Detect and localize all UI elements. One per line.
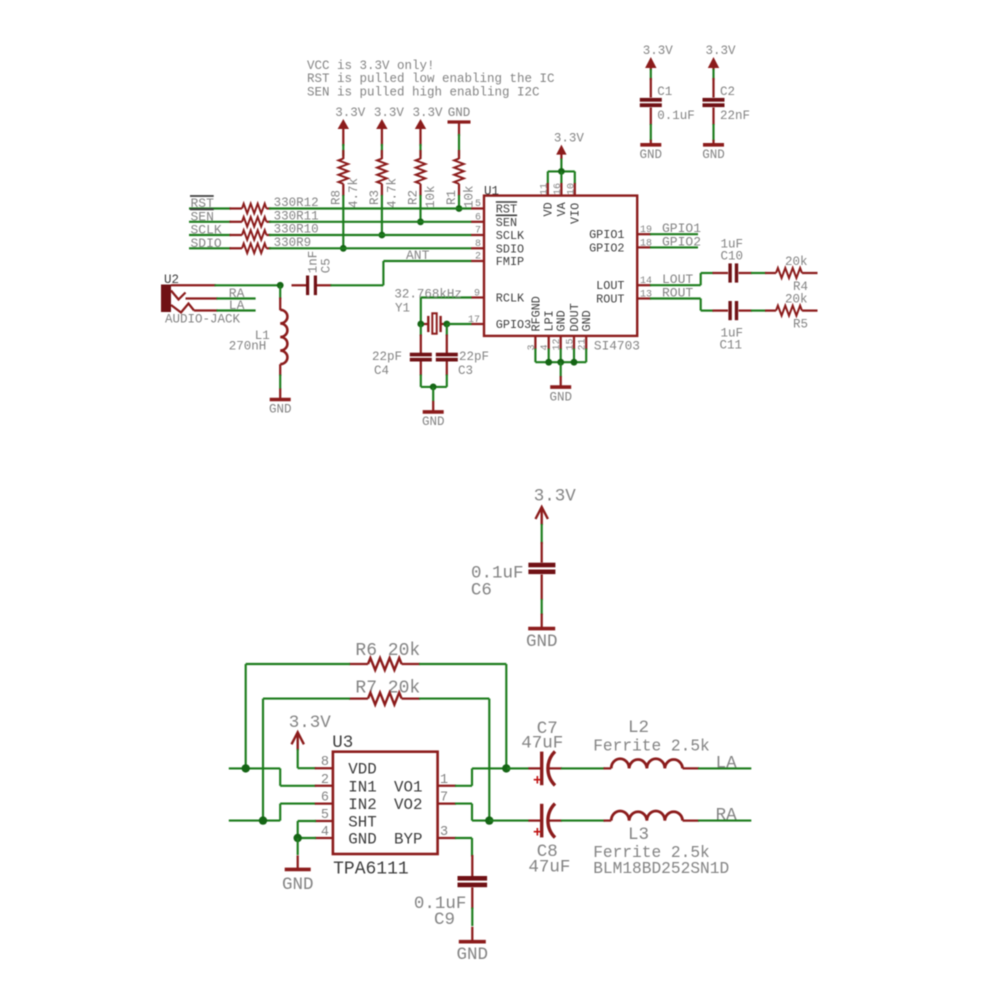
pin 2 stub: [315, 773, 333, 788]
crystal Y1 32.768kHz: [394, 288, 462, 334]
node RA stub: [217, 286, 256, 301]
svg-text:C4: C4: [374, 364, 389, 378]
svg-text:LOUT: LOUT: [596, 279, 624, 293]
svg-text:3.3V: 3.3V: [289, 713, 332, 733]
wire C11 to R5: [751, 310, 766, 312]
svg-text:4: 4: [321, 825, 329, 840]
supply 3.3V above U1: [554, 132, 585, 160]
wire SCLK to U1 pin 7: [269, 234, 472, 236]
ground GND below U3: [282, 855, 314, 895]
wire 3.3V to bus: [560, 159, 562, 172]
svg-text:C2: C2: [720, 85, 735, 99]
wire R7 left: [263, 698, 350, 700]
wire pin 4 down: [548, 349, 550, 363]
pin 9 stub: [471, 289, 484, 300]
pin 10 stub: [566, 183, 577, 196]
svg-text:SHT: SHT: [348, 814, 376, 832]
pin 3 stub: [438, 825, 456, 840]
wire C3 to gnd bus: [446, 375, 448, 387]
node SDIO label: [191, 236, 222, 251]
svg-text:GND: GND: [526, 632, 558, 652]
svg-text:6: 6: [475, 212, 481, 223]
svg-text:VA: VA: [555, 201, 569, 216]
resistor R10 330: [230, 223, 319, 240]
pin 4 stub: [540, 336, 551, 351]
svg-text:+: +: [533, 773, 542, 789]
pin 17 stub: [468, 315, 485, 326]
wire RST left: [189, 207, 231, 209]
wire ROUT input line: [229, 820, 280, 822]
svg-text:VIO: VIO: [569, 203, 583, 224]
node LA stub: [217, 298, 256, 313]
supply 3.3V above R3: [374, 106, 405, 146]
wire 3.3V to R3: [381, 144, 383, 156]
supply 3.3V above C6: [534, 487, 577, 526]
node GPIO1 wire: [650, 221, 701, 236]
C8 labels: [528, 842, 570, 878]
node RA output: [698, 806, 751, 826]
svg-text:C5: C5: [320, 258, 334, 273]
svg-text:GPIO2: GPIO2: [589, 241, 624, 255]
svg-text:GND: GND: [269, 403, 292, 417]
wire R7 right: [419, 698, 489, 700]
wire R6 left: [246, 663, 350, 665]
wire R2 to bus: [419, 195, 421, 222]
svg-text:GPIO2: GPIO2: [662, 234, 701, 249]
wire R6 right: [419, 663, 506, 665]
wire 3.3V to R2: [419, 144, 421, 156]
supply 3.3V above U3: [289, 713, 332, 750]
svg-text:47uF: 47uF: [521, 734, 563, 754]
pin 4 stub: [315, 825, 333, 840]
wire LOUT bend: [700, 273, 702, 285]
U1 pin names left: [496, 202, 531, 332]
U3 pin names left: [348, 761, 376, 849]
svg-text:0.1uF: 0.1uF: [657, 109, 695, 123]
wire L1 to GND: [279, 375, 281, 390]
capacitor C1 0.1uF: [640, 78, 695, 125]
svg-text:22pF: 22pF: [459, 350, 489, 364]
supply 3.3V above R8: [335, 106, 366, 146]
pin 7 stub: [471, 234, 484, 236]
wire bend to IN2: [279, 804, 281, 821]
resistor R2 10k: [407, 150, 439, 208]
svg-text:47uF: 47uF: [528, 858, 570, 878]
svg-text:C10: C10: [721, 250, 744, 264]
junction SHT/GND: [294, 834, 302, 842]
node LA output: [698, 754, 751, 774]
wire R6 left vertical: [245, 664, 247, 768]
wire 3.3V to C2: [712, 69, 714, 80]
wire to pin 16: [560, 171, 562, 184]
ground GND above R1: [448, 106, 471, 136]
svg-text:22nF: 22nF: [720, 109, 750, 123]
junction Y1 left: [417, 321, 424, 328]
svg-text:4.7k: 4.7k: [385, 178, 399, 208]
svg-text:FMIP: FMIP: [496, 255, 524, 269]
svg-text:GND: GND: [348, 831, 376, 849]
svg-text:3: 3: [440, 825, 448, 840]
wire pin 12 down: [560, 349, 562, 363]
wire C10 to R4: [751, 272, 766, 274]
wire down to GND: [432, 387, 434, 401]
note text block: [307, 59, 555, 99]
resistor R7 20k: [349, 679, 420, 705]
svg-text:C3: C3: [458, 364, 473, 378]
svg-text:ANT: ANT: [406, 248, 430, 263]
pin 3 stub: [527, 336, 538, 351]
wire bend to IN1: [279, 768, 281, 785]
wire GND pin 4: [298, 837, 316, 839]
supply 3.3V above C2: [705, 44, 736, 70]
junction R1: [456, 205, 463, 212]
wire R6 right vertical: [505, 664, 507, 768]
capacitor C11 1uF: [713, 301, 753, 353]
capacitor C4 22pF: [372, 335, 432, 379]
capacitor C2 22nF: [703, 78, 751, 125]
wire R1 to bus: [458, 195, 460, 209]
svg-text:RCLK: RCLK: [496, 292, 525, 306]
U1 pin names bottom: [529, 296, 594, 331]
wire LOUT input line: [229, 767, 280, 769]
svg-text:10: 10: [566, 183, 577, 195]
U3 pin names right: [394, 778, 422, 848]
wire RST to U1 pin 5: [269, 207, 472, 209]
ground GND below L1: [269, 389, 292, 417]
L2 labels: [593, 718, 710, 756]
svg-text:RST is pulled low enabling the: RST is pulled low enabling the IC: [307, 72, 555, 86]
ground GND below C6: [526, 614, 558, 652]
junction VO2/R7/C8: [485, 816, 493, 824]
pin 1 stub: [438, 773, 456, 788]
svg-text:7: 7: [475, 226, 481, 237]
svg-text:GND: GND: [702, 148, 725, 162]
U1 pin names top (VD VA VIO): [542, 201, 583, 224]
svg-text:BLM18BD252SN1D: BLM18BD252SN1D: [593, 860, 729, 878]
svg-text:GPIO3: GPIO3: [496, 318, 531, 332]
svg-text:L3: L3: [628, 825, 649, 845]
svg-text:IN2: IN2: [348, 796, 376, 814]
junction R7 left: [259, 816, 267, 824]
svg-text:Y1: Y1: [395, 302, 410, 316]
svg-text:R3: R3: [368, 190, 382, 205]
wire 3.3V to R8: [342, 144, 344, 156]
pin 6 stub: [315, 791, 333, 806]
svg-text:SDIO: SDIO: [496, 242, 524, 256]
pin 19 stub: [637, 225, 652, 236]
svg-text:VO2: VO2: [394, 796, 422, 814]
capacitor C8 47uF: [489, 804, 562, 842]
pin 15 stub: [566, 336, 577, 351]
wire C2 to GND: [712, 124, 714, 141]
pin 8 stub: [471, 247, 484, 249]
svg-text:C9: C9: [434, 910, 455, 930]
wire SDIO to U1 pin 8: [269, 247, 472, 249]
wire jack to C5/L1 junction: [215, 284, 281, 286]
svg-text:BYP: BYP: [394, 831, 422, 849]
svg-text:22pF: 22pF: [372, 350, 402, 364]
wire 3.3V to C1: [650, 69, 652, 80]
wire C5 to ANT bend: [331, 284, 384, 286]
wire R7 left vertical: [262, 699, 264, 821]
svg-text:16: 16: [553, 183, 564, 195]
ground GND below C2: [702, 140, 725, 162]
wire SDIO left: [189, 247, 231, 249]
node GPIO2 wire: [650, 234, 701, 249]
svg-text:3.3V: 3.3V: [412, 106, 443, 120]
wire pin 15 down: [573, 349, 575, 363]
wire to pin 11: [547, 171, 549, 184]
svg-text:11: 11: [539, 183, 550, 195]
svg-text:8: 8: [475, 239, 481, 250]
connector U2 AUDIO-JACK: [161, 273, 241, 327]
svg-text:3.3V: 3.3V: [534, 487, 577, 507]
supply 3.3V above C1: [643, 44, 674, 70]
wire VO2 bend down: [455, 803, 472, 805]
wire RCLK: [421, 296, 472, 298]
svg-text:GND: GND: [580, 310, 594, 331]
node SCLK label: [191, 223, 222, 238]
svg-text:C1: C1: [657, 85, 672, 99]
svg-text:AUDIO-JACK: AUDIO-JACK: [165, 313, 241, 327]
IC U1 SI4703 body: [484, 185, 640, 354]
svg-text:GND: GND: [422, 415, 445, 429]
wire C6 to GND: [541, 599, 543, 615]
wire R8 to bus: [342, 195, 344, 248]
svg-text:L2: L2: [628, 718, 649, 738]
resistor R5 20k: [765, 293, 818, 332]
resistor R8 4.7k: [329, 150, 361, 208]
junction R2: [417, 218, 424, 225]
capacitor C7 47uF: [507, 751, 562, 789]
junction pin4: [545, 359, 552, 366]
wire pin 21 down: [585, 349, 587, 363]
svg-text:ROUT: ROUT: [596, 293, 624, 307]
L3 labels: [593, 825, 729, 878]
pin 13 stub: [637, 290, 652, 301]
svg-text:5: 5: [321, 808, 329, 823]
wire gnd bus under crystal: [421, 386, 447, 388]
resistor R9 330: [230, 236, 312, 253]
svg-text:RST: RST: [496, 203, 517, 217]
inductor L2 ferrite: [561, 759, 699, 769]
inductor L3 ferrite: [561, 811, 699, 821]
svg-text:SCLK: SCLK: [496, 229, 525, 243]
junction R6 left: [242, 764, 250, 772]
wire SEN left: [189, 221, 231, 223]
pin 16 stub: [553, 183, 564, 196]
wire C1 to GND: [650, 124, 652, 141]
svg-text:R5: R5: [793, 318, 808, 332]
svg-text:C11: C11: [720, 339, 743, 353]
svg-text:2: 2: [321, 773, 329, 788]
pin 5 stub: [315, 808, 333, 823]
svg-text:ROUT: ROUT: [662, 286, 693, 301]
svg-text:GND: GND: [282, 875, 314, 895]
capacitor C10 1uF: [713, 238, 753, 283]
wire ANT vertical: [382, 261, 384, 285]
wire pin 3 down: [534, 349, 536, 363]
svg-text:3.3V: 3.3V: [705, 44, 736, 58]
svg-text:270nH: 270nH: [229, 339, 267, 353]
svg-text:7: 7: [440, 791, 448, 806]
pin 8 stub: [315, 755, 333, 770]
svg-text:R1: R1: [445, 190, 459, 205]
pin 14 stub: [637, 276, 652, 287]
node ROUT wire: [650, 286, 701, 301]
svg-text:GND: GND: [457, 945, 489, 965]
pin 5 stub: [471, 207, 484, 209]
wire down to GND: [560, 362, 562, 377]
resistor R11 330: [230, 209, 319, 226]
supply 3.3V above R2: [412, 106, 443, 146]
pin 12 stub: [552, 336, 563, 351]
wire Y1 to C3: [446, 324, 448, 336]
svg-text:GPIO1: GPIO1: [589, 228, 624, 242]
svg-text:TPA6111: TPA6111: [333, 860, 409, 880]
svg-text:32.768kHz: 32.768kHz: [394, 288, 462, 302]
wire C4 to gnd bus: [420, 375, 422, 387]
resistor R4 20k: [765, 255, 818, 294]
wire to pin 10: [574, 171, 576, 184]
wire ROUT bend: [700, 299, 702, 311]
wire to GND symbol: [297, 838, 299, 855]
pin 18 stub: [637, 238, 652, 249]
junction R8: [340, 245, 347, 252]
ground GND below crystal caps: [422, 401, 445, 429]
wire R3 to bus: [381, 195, 383, 235]
svg-text:SI4703: SI4703: [594, 339, 640, 354]
svg-text:Ferrite 2.5k: Ferrite 2.5k: [593, 738, 710, 756]
IC U3 TPA6111 body: [332, 733, 437, 880]
svg-text:20k: 20k: [785, 293, 808, 307]
svg-text:VO1: VO1: [394, 778, 422, 796]
wire pin bus: [548, 170, 575, 172]
svg-text:LA: LA: [716, 754, 738, 774]
wire Y1 to C4: [420, 324, 422, 336]
wire R7 right vertical: [488, 699, 490, 821]
resistor R1 10k: [445, 150, 477, 208]
wire SEN to U1 pin 6: [269, 221, 472, 223]
svg-text:3.3V: 3.3V: [374, 106, 405, 120]
C7 labels: [521, 719, 563, 754]
wire 3.3V to C6: [541, 524, 543, 544]
junction 3.3V bus: [558, 168, 565, 175]
svg-text:10k: 10k: [424, 185, 438, 208]
capacitor C5 1nF: [292, 251, 334, 295]
U1 pin names right: [589, 228, 624, 306]
svg-text:3.3V: 3.3V: [554, 132, 585, 146]
svg-text:GND: GND: [555, 310, 569, 331]
wire C9 to GND: [471, 908, 473, 927]
wire VO1 bend up: [455, 785, 472, 787]
svg-text:IN1: IN1: [348, 778, 376, 796]
node LOUT wire: [650, 272, 701, 287]
svg-text:VD: VD: [542, 202, 556, 216]
wire RCLK down: [420, 298, 422, 325]
svg-text:GND: GND: [448, 106, 471, 120]
capacitor C9 0.1uF: [414, 855, 487, 930]
svg-text:VDD: VDD: [348, 761, 376, 779]
junction pin12: [557, 359, 564, 366]
svg-text:9: 9: [474, 289, 480, 300]
svg-text:2: 2: [475, 252, 481, 263]
wire SHT to gnd: [298, 820, 316, 822]
inductor L1 270nH: [229, 285, 288, 376]
svg-text:20k: 20k: [785, 255, 808, 269]
svg-text:SEN: SEN: [496, 216, 517, 230]
svg-text:U3: U3: [332, 733, 353, 753]
svg-text:C6: C6: [471, 581, 492, 601]
svg-text:R2: R2: [407, 190, 421, 205]
svg-text:R8: R8: [329, 190, 343, 205]
wire SCLK left: [189, 234, 231, 236]
wire 3.3V to pin 8: [297, 749, 299, 768]
svg-text:+: +: [533, 826, 542, 842]
junction Y1 right: [443, 321, 450, 328]
resistor R6 20k: [349, 641, 420, 670]
wire U1 gnd bus: [535, 361, 586, 363]
node SEN label: [190, 209, 214, 224]
pin 7 stub: [438, 791, 456, 806]
svg-text:3.3V: 3.3V: [643, 44, 674, 58]
svg-text:RA: RA: [716, 806, 738, 826]
junction jack/L1/C5: [277, 282, 284, 289]
node ANT wire to pin 2: [383, 248, 471, 263]
svg-text:4.7k: 4.7k: [347, 178, 361, 208]
junction pin15: [571, 359, 578, 366]
junction VO1/R6/C7: [502, 764, 510, 772]
ground GND below U1: [549, 376, 572, 405]
ground GND below C1: [640, 140, 663, 162]
wire GND to R1: [458, 134, 460, 156]
svg-text:R6 20k: R6 20k: [355, 641, 420, 661]
svg-text:3.3V: 3.3V: [335, 106, 366, 120]
junction R3: [379, 232, 386, 239]
pin 6 stub: [471, 221, 484, 223]
pin 2 stub: [471, 252, 484, 263]
capacitor C3 22pF: [436, 335, 489, 379]
wire BYP bend down: [455, 837, 472, 839]
pin 11 stub: [539, 183, 550, 196]
svg-text:RFGND: RFGND: [529, 296, 543, 331]
resistor R12 330: [230, 196, 319, 213]
svg-text:GND: GND: [640, 148, 663, 162]
node RST label: [190, 196, 214, 211]
pin 21 stub: [578, 336, 589, 351]
capacitor C6 0.1uF: [471, 542, 556, 601]
resistor R3 4.7k: [368, 150, 400, 208]
svg-text:GND: GND: [549, 391, 572, 405]
svg-text:5: 5: [475, 199, 481, 210]
wire Y1 to pin 17: [447, 323, 472, 325]
svg-text:1nF: 1nF: [307, 251, 321, 274]
ground GND below C9: [457, 927, 489, 965]
svg-text:1: 1: [440, 773, 448, 788]
junction crystal gnd: [430, 384, 437, 391]
svg-text:6: 6: [321, 791, 329, 806]
svg-text:SEN is pulled high enabling I2: SEN is pulled high enabling I2C: [307, 85, 540, 99]
svg-text:VCC is 3.3V only!: VCC is 3.3V only!: [307, 59, 435, 73]
svg-text:8: 8: [321, 755, 329, 770]
